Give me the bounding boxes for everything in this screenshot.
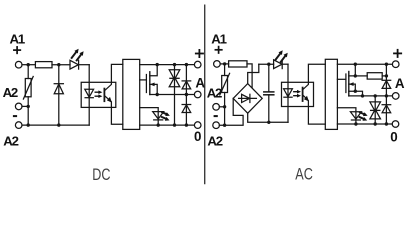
svg-text:0: 0 <box>194 129 201 144</box>
terminal 0 (DC output) <box>194 122 201 129</box>
opto U1 coupling arrows <box>95 90 102 98</box>
node junction TVS/0 rail <box>374 122 377 125</box>
node junction diode/A rail <box>185 93 188 96</box>
resistor R3 (AC snubber) <box>367 73 382 79</box>
opto U3 coupling arrows <box>294 90 301 98</box>
plus polarity mark (DC input) <box>14 47 20 53</box>
node junction varistor/A2 <box>27 105 30 108</box>
node junction diode/+ rail <box>185 63 188 66</box>
wire A2 tie vertical <box>27 106 29 125</box>
minus polarity mark (AC) <box>214 115 218 117</box>
wire A2 bottom rail to bridge <box>219 98 243 125</box>
opto U1 LED vertical wire <box>88 65 90 125</box>
wire IC to + rail <box>140 64 195 66</box>
LED D5 (DC output indicator) <box>153 112 164 120</box>
wire IC to + rail <box>337 63 392 65</box>
wire IC to 0 rail <box>337 123 392 125</box>
svg-text:0: 0 <box>390 130 397 145</box>
svg-text:A: A <box>395 76 405 91</box>
node junction TVS/+ rail <box>173 63 176 66</box>
svg-text:DC: DC <box>92 166 110 184</box>
LED D6 (AC input indicator) <box>274 60 283 69</box>
optocoupler U1 box (DC) <box>81 82 116 107</box>
node junction body/source <box>354 90 357 93</box>
wire A2 tie vertical <box>224 107 226 125</box>
opto U3 phototransistor (AC) <box>303 64 326 124</box>
plus polarity mark (DC output) <box>196 50 203 57</box>
node junction drain/+ rail <box>354 62 357 65</box>
node junction diode/+ rail <box>385 62 388 65</box>
terminal A2 lower (AC) <box>213 122 220 129</box>
node junction source/A rail <box>156 93 159 96</box>
wire resistor to LED <box>52 64 70 66</box>
wire A2 bottom rail <box>22 124 89 126</box>
diode D2 (DC reverse protection) <box>54 65 63 125</box>
node junction LED/0 rail <box>354 122 357 125</box>
wire resistor to bridge <box>247 64 252 88</box>
LED D9 emission arrows <box>360 112 368 121</box>
terminal + (DC output) <box>194 61 201 68</box>
wire A1 top rail <box>220 63 228 65</box>
node junction LED/0 rail <box>157 123 160 126</box>
svg-text:A2: A2 <box>3 85 18 100</box>
node junction top rail/diode <box>57 63 60 66</box>
wire A1 top rail <box>22 64 35 66</box>
node junction varistor/A2 <box>223 105 226 108</box>
node junction TVS/A rail <box>374 94 377 97</box>
wire bridge - rail <box>248 113 288 122</box>
driver IC U2 (DC) <box>123 59 140 129</box>
wire LED to optocoupler <box>79 64 89 66</box>
wire IC to 0 rail <box>140 124 195 126</box>
LED D1 (DC input indicator) <box>70 60 79 69</box>
plus polarity mark (AC output) <box>394 50 401 57</box>
diode D7 (AC, A to +) <box>382 64 391 96</box>
svg-text:A1: A1 <box>10 32 25 47</box>
wire IC to output LED <box>337 108 356 124</box>
wire source/A rail <box>150 94 195 96</box>
wire A2 upper rail <box>22 105 28 107</box>
terminal 0 (AC output) <box>392 121 399 128</box>
node junction resistor/diode column <box>385 74 388 77</box>
terminal A1 (AC) <box>214 61 221 68</box>
diode D3 (DC, A to +) <box>182 65 191 95</box>
wire drain to snubber resistor <box>355 75 367 77</box>
node junction A2 rail/varistor <box>223 124 226 127</box>
wire IC to gate <box>140 79 147 81</box>
plus polarity mark (AC input) <box>215 47 221 53</box>
transistor Q1 MOSFET (DC) <box>146 65 157 95</box>
node junction diode/A rail <box>385 94 388 97</box>
terminal A (AC output) <box>392 93 399 100</box>
terminal A1 (DC) <box>15 61 22 68</box>
svg-text:A2: A2 <box>3 133 18 148</box>
transistor Q2 MOSFET (AC) <box>346 64 363 96</box>
resistor R2 (AC input series) <box>229 61 247 67</box>
diode D4 (DC, 0 to A) <box>182 95 191 126</box>
svg-text:A2: A2 <box>207 133 222 148</box>
wire LED to optocoupler <box>283 63 288 65</box>
TVS suppressor Z2 (AC, A to 0) <box>370 96 381 124</box>
wire IC to gate <box>337 78 346 80</box>
svg-text:AC: AC <box>295 166 313 184</box>
wire resistor to diode column <box>382 75 386 77</box>
LED D9 (AC output indicator) <box>350 112 361 120</box>
divider line between DC and AC halves <box>204 5 206 183</box>
varistor RV1 (DC) <box>23 65 33 107</box>
node junction A2 rail/diode <box>57 123 60 126</box>
opto U3 LED (AC) <box>284 89 293 97</box>
wire source/A rail <box>349 95 393 97</box>
svg-text:A: A <box>195 76 205 91</box>
resistor R1 (DC input series) <box>35 62 52 68</box>
terminal A2 lower (DC) <box>15 122 22 129</box>
opto U1 phototransistor (DC) <box>104 64 122 124</box>
capacitor C1 (AC) <box>264 64 274 122</box>
wire A2 upper rail <box>219 106 224 108</box>
terminal A (DC output) <box>194 91 201 98</box>
node junction TVS/0 rail <box>173 123 176 126</box>
wire bridge + output <box>248 64 259 83</box>
LED D1 emission arrows <box>72 49 84 61</box>
minus polarity mark (DC) <box>13 115 17 117</box>
node junction diode/0 rail <box>385 122 388 125</box>
bridge rectifier BR1 (AC) <box>233 84 262 114</box>
node junction capacitor/LED line <box>267 62 270 65</box>
opto U3 LED vertical wire <box>287 64 289 122</box>
optocoupler U3 box (AC) <box>282 82 314 106</box>
node junction varistor/A1 <box>223 62 226 65</box>
diode D8 (AC, 0 to A) <box>382 96 391 124</box>
wire LED line (AC internal + rail) <box>259 63 274 65</box>
node junction capacitor/- rail <box>267 121 270 124</box>
node junction source/A rail <box>361 94 364 97</box>
svg-text:A1: A1 <box>211 32 226 47</box>
node junction drain/+ rail <box>156 63 159 66</box>
LED D5 emission arrows <box>162 112 170 121</box>
node junction A2 rail/varistor <box>27 123 30 126</box>
TVS suppressor Z1 (DC, + to 0) <box>169 65 180 126</box>
varistor RV2 (AC) <box>220 64 230 107</box>
terminal A2 upper (DC) <box>15 103 22 110</box>
LED D6 emission arrows <box>276 50 288 62</box>
wire IC to output LED <box>140 108 159 126</box>
node junction varistor/A1 <box>27 63 30 66</box>
opto U1 LED (DC) <box>85 89 94 97</box>
terminal A2 upper (AC) <box>213 104 220 111</box>
node junction diode/0 rail <box>185 123 188 126</box>
driver IC U4 (AC) <box>325 59 337 129</box>
node junction drain/resistor <box>354 74 357 77</box>
terminal + (AC output) <box>392 61 399 68</box>
svg-text:A2: A2 <box>207 85 222 100</box>
